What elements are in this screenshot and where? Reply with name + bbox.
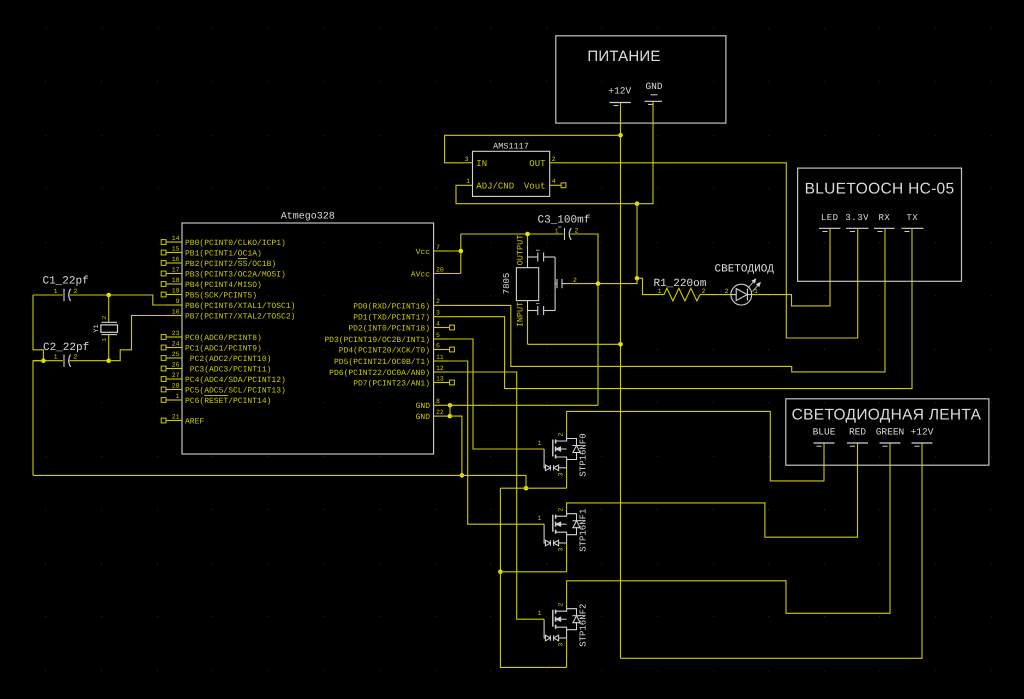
svg-text:4: 4 xyxy=(552,178,556,185)
svg-text:3: 3 xyxy=(558,472,565,476)
node C2 left junction xyxy=(41,358,46,363)
svg-text:PD7(PCINT23/AN1): PD7(PCINT23/AN1) xyxy=(353,379,430,388)
svg-text:Vout: Vout xyxy=(524,181,546,191)
svg-text:BLUE: BLUE xyxy=(813,427,836,438)
svg-text:6: 6 xyxy=(436,342,440,349)
svg-text:1: 1 xyxy=(54,288,58,295)
wire M2 source rail xyxy=(500,571,566,573)
pin 15 PB1(PCINT1/OC1A) xyxy=(166,252,182,254)
unconnected Vout xyxy=(561,183,566,188)
node M2 source branch xyxy=(498,570,503,575)
node GND8 xyxy=(448,403,453,408)
svg-text:PB6(PCINT6/XTAL1/TOSC1): PB6(PCINT6/XTAL1/TOSC1) xyxy=(185,302,295,311)
svg-text:2: 2 xyxy=(573,277,577,284)
svg-text:9: 9 xyxy=(176,298,180,305)
svg-text:C1_22pf: C1_22pf xyxy=(43,276,89,288)
svg-text:7805: 7805 xyxy=(502,273,512,295)
wire GND chain down xyxy=(636,204,638,279)
svg-text:PD3(PCINT19/OC2B/INT1): PD3(PCINT19/OC2B/INT1) xyxy=(324,336,430,345)
svg-text:PC2(ADC2/PCINT10): PC2(ADC2/PCINT10) xyxy=(185,355,271,364)
svg-text:3.3V: 3.3V xyxy=(845,213,869,223)
wire GND8-GND22 link xyxy=(449,405,451,416)
pin 6 PD4(PCINT20/XCK/T0) xyxy=(434,349,450,351)
svg-text:1: 1 xyxy=(101,337,108,341)
pin 10 PB7(PCINT7/XTAL2/TOSC2) xyxy=(166,315,182,317)
svg-text:GND: GND xyxy=(416,413,431,422)
svg-text:+12V: +12V xyxy=(911,427,934,438)
pin 12 PD6(PCINT22/OC0A/AN0) xyxy=(434,371,450,373)
connector J1 POWER box xyxy=(556,36,726,123)
svg-text:18: 18 xyxy=(172,277,180,284)
svg-text:13: 13 xyxy=(436,375,444,382)
pin 24 PC1(ADC1/PCINT9) xyxy=(166,347,182,349)
svg-text:PC1(ADC1/PCINT9): PC1(ADC1/PCINT9) xyxy=(185,344,262,353)
svg-text:2: 2 xyxy=(74,354,78,361)
node GND / R1 branch xyxy=(635,276,640,281)
svg-text:1: 1 xyxy=(658,288,662,295)
node ground rail B xyxy=(524,486,529,491)
wire M2 drain to RED xyxy=(567,444,858,538)
node C3gnd / cap row xyxy=(596,281,601,286)
svg-text:27: 27 xyxy=(172,372,180,379)
svg-text:1: 1 xyxy=(466,178,470,185)
svg-text:СВЕТОДИОДНАЯ ЛЕНТА: СВЕТОДИОДНАЯ ЛЕНТА xyxy=(792,407,982,424)
wire 5V rail xyxy=(461,233,564,235)
svg-text:3: 3 xyxy=(436,310,440,317)
svg-text:GREEN: GREEN xyxy=(876,427,905,438)
wire M1 source to ground xyxy=(566,469,568,489)
svg-text:PC6(RESET/PCINT14): PC6(RESET/PCINT14) xyxy=(185,397,271,406)
7805 output lead up xyxy=(527,246,529,268)
capacitor C1 symbol xyxy=(33,294,63,296)
wire +12V to AMS1117 IN xyxy=(445,135,621,163)
svg-text:LED: LED xyxy=(821,213,839,223)
regulator U2 AMS1117 box xyxy=(473,151,550,196)
wire M3 drain to GREEN xyxy=(567,444,890,614)
wire PD5 to M2 gate xyxy=(449,361,544,524)
svg-text:2: 2 xyxy=(436,298,440,305)
wire M2 source to ground xyxy=(566,544,568,572)
capacitor C2 symbol xyxy=(33,360,63,362)
svg-text:PB1(PCINT1/OC1A): PB1(PCINT1/OC1A) xyxy=(185,249,262,258)
svg-text:1: 1 xyxy=(538,440,542,447)
resistor R1 zigzag xyxy=(664,288,700,301)
pin 27 PC4(ADC4/SDA/PCINT12) xyxy=(166,378,182,380)
wire +12V to strip xyxy=(621,444,923,659)
svg-text:Atmego328: Atmego328 xyxy=(281,212,335,223)
svg-text:16: 16 xyxy=(172,256,180,263)
svg-text:IN: IN xyxy=(476,159,487,169)
wire C3 to GND vertical xyxy=(570,234,598,405)
pin 25 PC2(ADC2/PCINT10) xyxy=(166,357,182,359)
svg-text:24: 24 xyxy=(172,340,180,347)
svg-text:GND: GND xyxy=(416,402,431,411)
svg-text:3: 3 xyxy=(558,548,565,552)
svg-text:15: 15 xyxy=(172,245,180,252)
svg-text:5: 5 xyxy=(436,332,440,339)
svg-text:1: 1 xyxy=(538,610,542,617)
pin 28 PC5(ADC5/SCL/PCINT13) xyxy=(166,389,182,391)
svg-text:Vcc: Vcc xyxy=(416,248,431,257)
svg-text:PD1(TXD/PCINT17): PD1(TXD/PCINT17) xyxy=(353,314,430,323)
wire PD1 TXD to BT TX xyxy=(449,229,912,389)
svg-text:2: 2 xyxy=(101,315,108,319)
crystal Y1 xyxy=(108,295,110,322)
svg-text:4: 4 xyxy=(436,320,440,327)
wire R1 to LED xyxy=(700,294,731,296)
pin 22 GND xyxy=(434,415,450,417)
pin 13 PD7(PCINT23/AN1) xyxy=(434,382,450,384)
pin 16 PB2(PCINT2/SS/OC1B) xyxy=(166,262,182,264)
wire PD0 RXD to BT RX xyxy=(449,229,885,372)
svg-text:1: 1 xyxy=(538,515,542,522)
overline RESET on PC6 xyxy=(204,395,228,397)
regulator U3 7805 body xyxy=(516,268,538,301)
svg-text:GND: GND xyxy=(645,81,662,92)
wire GND down from connector xyxy=(637,101,653,203)
wire C1 node to PB6 xyxy=(109,295,167,305)
svg-text:ПИТАНИЕ: ПИТАНИЕ xyxy=(587,48,660,65)
wire +12V rail down xyxy=(620,103,622,136)
svg-text:PB0(PCINT0/CLKO/ICP1): PB0(PCINT0/CLKO/ICP1) xyxy=(185,239,286,248)
transistor Q0 STP16NF0 xyxy=(544,435,580,471)
svg-text:10: 10 xyxy=(172,308,180,315)
svg-text:19: 19 xyxy=(172,287,180,294)
svg-text:C3_100mf: C3_100mf xyxy=(538,215,591,227)
pin GND bar xyxy=(645,100,663,102)
svg-text:PC4(ADC4/SDA/PCINT12): PC4(ADC4/SDA/PCINT12) xyxy=(185,376,286,385)
node XTAL1 junction xyxy=(106,293,111,298)
svg-text:1: 1 xyxy=(555,228,559,235)
IC U1 Atmego328 body xyxy=(182,223,434,454)
wire AMS1117 ADJ/GND to GND xyxy=(456,185,637,203)
svg-text:C2_22pf: C2_22pf xyxy=(43,342,89,354)
pin 8 GND xyxy=(434,404,450,406)
svg-text:3: 3 xyxy=(465,156,469,163)
node XTAL2 junction xyxy=(106,358,111,363)
node +12V / AMS1117 IN xyxy=(618,133,623,138)
svg-text:25: 25 xyxy=(172,351,180,358)
svg-text:PC3(ADC3/PCINT11): PC3(ADC3/PCINT11) xyxy=(185,365,271,374)
capacitor C3 symbol xyxy=(564,228,566,240)
wire GND22 to ground rail xyxy=(450,416,462,475)
svg-text:3: 3 xyxy=(558,643,565,647)
wire AMS1117 OUT 3.3V rail xyxy=(550,163,858,338)
pin 26 PC3(ADC3/PCINT11) xyxy=(166,368,182,370)
wire PD6 to M3 gate xyxy=(449,372,544,619)
svg-text:PD0(RXD/PCINT16): PD0(RXD/PCINT16) xyxy=(353,302,430,311)
svg-text:2: 2 xyxy=(725,288,729,295)
wire ground rail B xyxy=(500,487,566,489)
pin 7 Vcc xyxy=(434,250,450,252)
svg-text:STP16NF0: STP16NF0 xyxy=(579,433,589,476)
wire GND branch to R1 xyxy=(637,278,664,294)
svg-text:PD2(INT0/PCINT18): PD2(INT0/PCINT18) xyxy=(348,324,430,333)
wire M1 drain to BLUE xyxy=(567,411,824,481)
svg-text:7: 7 xyxy=(436,244,440,251)
svg-text:PB5(SCK/PCINT5): PB5(SCK/PCINT5) xyxy=(185,291,257,300)
LED arrows xyxy=(748,278,761,291)
node ground rail / GND22 xyxy=(460,473,465,478)
wire ground drop to M3 xyxy=(500,572,566,668)
node GND / AMS1117 GND xyxy=(635,201,640,206)
wire M3 source to ground xyxy=(566,639,568,668)
svg-text:PB7(PCINT7/XTAL2/TOSC2): PB7(PCINT7/XTAL2/TOSC2) xyxy=(185,312,295,321)
wire C1 left leg down xyxy=(33,295,43,361)
wire Vcc AVcc link xyxy=(434,234,461,251)
svg-text:STP16NF1: STP16NF1 xyxy=(579,509,589,552)
wire ground drop to lower mosfets xyxy=(499,488,501,572)
node Vcc junction xyxy=(459,249,464,254)
svg-text:1: 1 xyxy=(176,393,180,400)
wire C2 node to PB7 xyxy=(109,316,167,361)
svg-text:RX: RX xyxy=(878,213,890,223)
7805 gnd bus xyxy=(554,257,556,311)
svg-text:PC5(ADC5/SCL/PCINT13): PC5(ADC5/SCL/PCINT13) xyxy=(185,386,286,395)
transistor Q2 STP16NF2 xyxy=(544,605,580,641)
svg-text:PD4(PCINT20/XCK/T0): PD4(PCINT20/XCK/T0) xyxy=(339,346,430,355)
svg-text:INPUT: INPUT xyxy=(515,302,525,328)
svg-text:PB3(PCINT3/OC2A/MOSI): PB3(PCINT3/OC2A/MOSI) xyxy=(185,270,286,279)
pin 23 PC0(ADC0/PCINT8) xyxy=(166,336,182,338)
svg-text:21: 21 xyxy=(172,413,180,420)
7805 input lead down xyxy=(527,301,529,312)
wire 7805 input to +12V xyxy=(528,343,621,345)
svg-text:Y1: Y1 xyxy=(93,324,101,332)
connector J3 LED strip box xyxy=(786,399,989,465)
svg-text:ADJ/CND: ADJ/CND xyxy=(476,181,514,191)
svg-text:AREF: AREF xyxy=(185,417,204,426)
pin 5 PD3(PCINT19/OC2B/INT1) xyxy=(434,338,450,340)
svg-text:PB4(PCINT4/MISO): PB4(PCINT4/MISO) xyxy=(185,281,262,290)
svg-text:PC0(ADC0/PCINT8): PC0(ADC0/PCINT8) xyxy=(185,334,262,343)
pin +12V bar xyxy=(610,102,631,104)
pin 1 PC6(RESET/PCINT14) xyxy=(166,399,182,401)
svg-text:AMS1117: AMS1117 xyxy=(493,142,529,152)
wire gnd left leg down to ground rail xyxy=(33,361,43,476)
pin 3 PD1(TXD/PCINT17) xyxy=(434,316,450,318)
pin 9 PB6(PCINT6/XTAL1/TOSC1) xyxy=(166,304,182,306)
svg-text:RED: RED xyxy=(849,427,866,438)
svg-text:PD5(PCINT21/OC0B/T1): PD5(PCINT21/OC0B/T1) xyxy=(334,358,430,367)
gnd-side capacitor pin 2 xyxy=(555,283,556,285)
pin 21 AREF xyxy=(166,420,182,422)
svg-text:1: 1 xyxy=(754,288,758,295)
wire 7805 gnd cap to GND chain xyxy=(567,278,638,283)
svg-text:22: 22 xyxy=(436,409,444,416)
overline SS on PB2 xyxy=(238,258,248,260)
svg-text:PB2(PCINT2/SS/OC1B): PB2(PCINT2/SS/OC1B) xyxy=(185,260,276,269)
svg-text:STP16NF2: STP16NF2 xyxy=(579,604,589,647)
pin 18 PB4(PCINT4/MISO) xyxy=(166,283,182,285)
svg-text:26: 26 xyxy=(172,361,180,368)
svg-text:2: 2 xyxy=(558,508,565,512)
svg-text:12: 12 xyxy=(436,365,444,372)
svg-text:+12V: +12V xyxy=(608,86,631,97)
svg-text:2: 2 xyxy=(552,156,556,163)
svg-text:8: 8 xyxy=(436,398,440,405)
svg-text:OUTPUT: OUTPUT xyxy=(515,235,525,266)
svg-text:20: 20 xyxy=(436,266,444,273)
node +12V / 7805 IN xyxy=(618,342,623,347)
svg-text:1: 1 xyxy=(54,354,58,361)
output-side capacitor xyxy=(528,256,538,258)
pin 14 PB0(PCINT0/CLKO/ICP1) xyxy=(166,241,182,243)
pin 19 PB5(SCK/PCINT5) xyxy=(166,294,182,296)
svg-text:11: 11 xyxy=(436,354,444,361)
node 5V / 7805 OUT xyxy=(525,232,530,237)
pin 4 PD2(INT0/PCINT18) xyxy=(434,327,450,329)
pin 20 AVcc xyxy=(434,273,450,275)
svg-text:2: 2 xyxy=(74,288,78,295)
svg-text:PD6(PCINT22/OC0A/AN0): PD6(PCINT22/OC0A/AN0) xyxy=(329,369,430,378)
svg-text:14: 14 xyxy=(172,235,180,242)
svg-text:TX: TX xyxy=(906,213,918,223)
transistor Q1 STP16NF1 xyxy=(544,510,580,546)
wire PD3 to M1 gate xyxy=(449,339,544,449)
pin 17 PB3(PCINT3/OC2A/MOSI) xyxy=(166,273,182,275)
svg-text:23: 23 xyxy=(172,330,180,337)
svg-text:2: 2 xyxy=(558,603,565,607)
pin 2 PD0(RXD/PCINT16) xyxy=(434,304,450,306)
wire GND8 to C3 leg xyxy=(450,404,598,406)
svg-text:OUT: OUT xyxy=(529,159,546,169)
pin 11 PD5(PCINT21/OC0B/T1) xyxy=(434,360,450,362)
input-side capacitor xyxy=(528,310,538,312)
svg-text:AVcc: AVcc xyxy=(411,270,430,279)
svg-text:28: 28 xyxy=(172,382,180,389)
node GND22 xyxy=(448,414,453,419)
connector J2 BLUETOOCH HC-05 box xyxy=(798,168,962,281)
svg-text:BLUETOOCH HC-05: BLUETOOCH HC-05 xyxy=(805,181,955,198)
svg-text:СВЕТОДИОД: СВЕТОДИОД xyxy=(715,264,775,276)
svg-text:17: 17 xyxy=(172,266,180,273)
svg-text:2: 2 xyxy=(702,288,706,295)
wire ground rail A xyxy=(33,475,526,488)
svg-text:2: 2 xyxy=(558,432,565,436)
wire LED to BT LED pin xyxy=(752,229,830,306)
